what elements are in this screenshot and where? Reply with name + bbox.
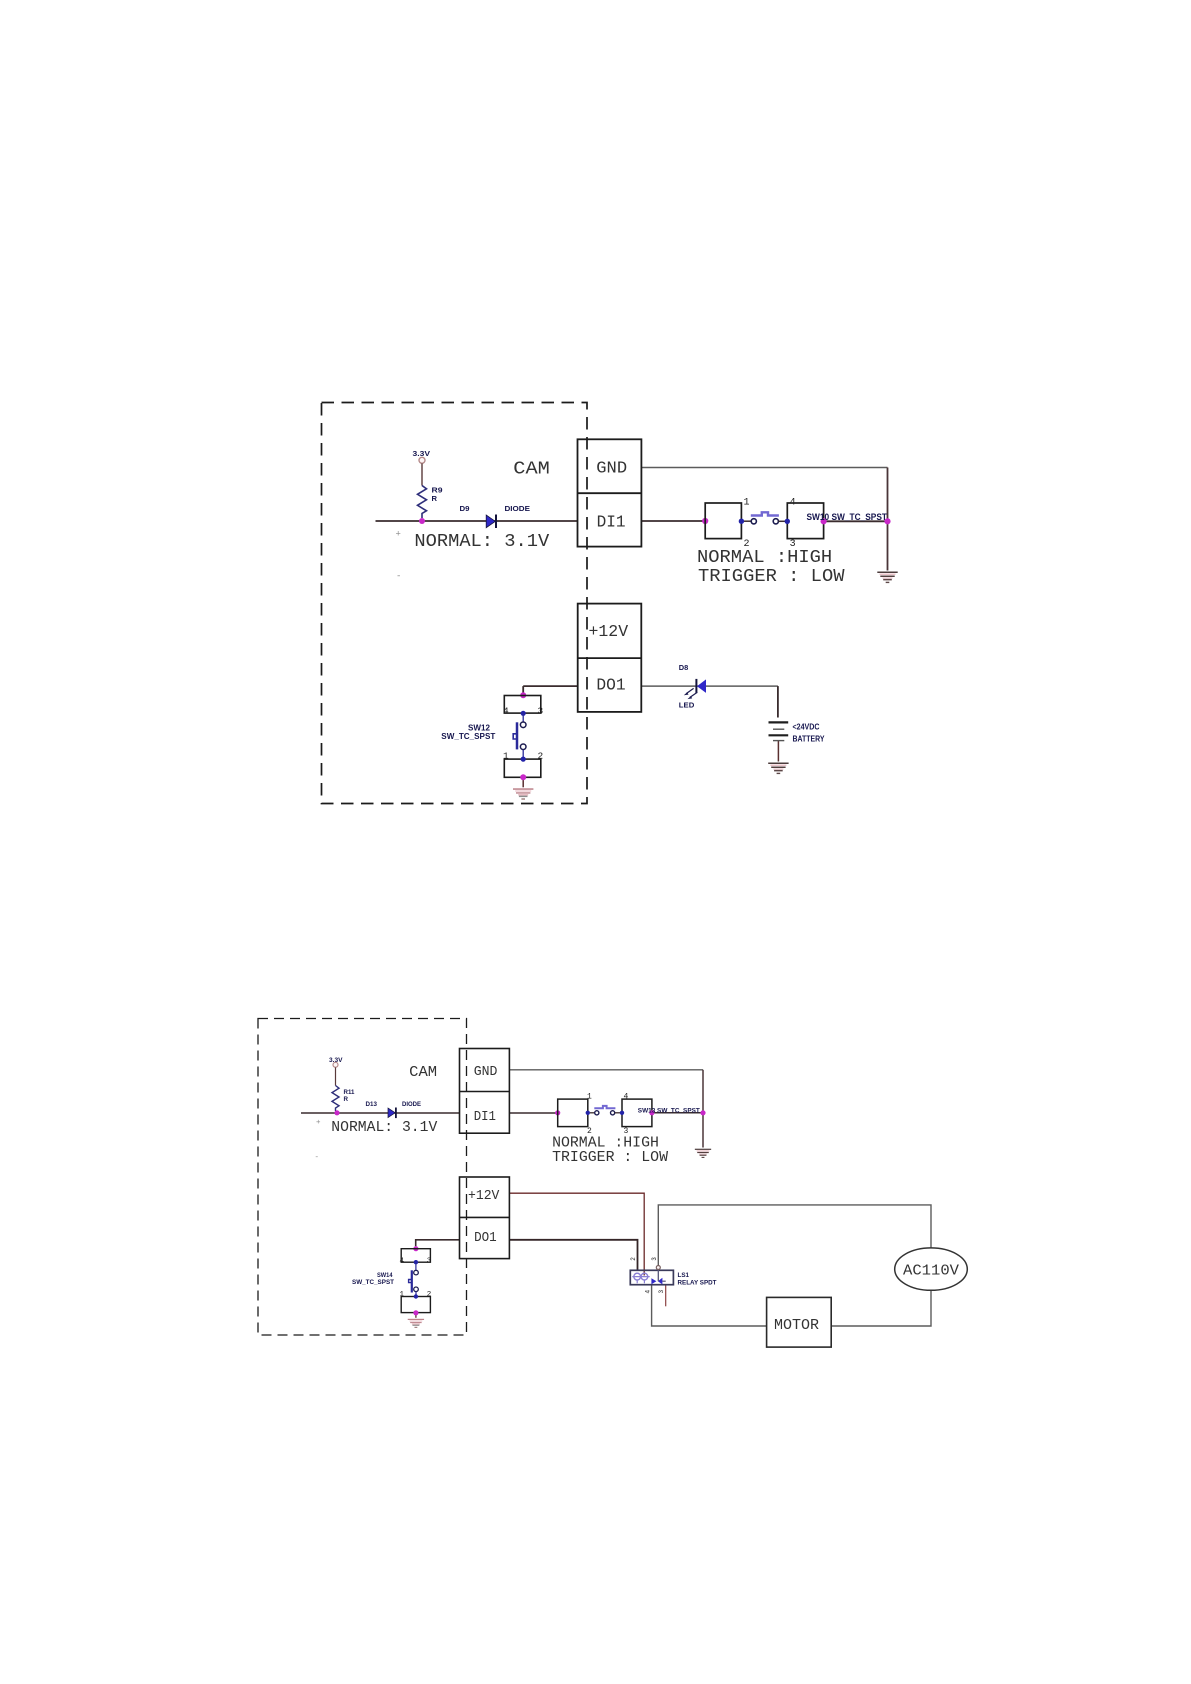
svg-text:+12V: +12V <box>468 1189 500 1204</box>
svg-text:SW10 SW_TC_SPST: SW10 SW_TC_SPST <box>807 512 888 522</box>
svg-text:4: 4 <box>624 1093 629 1102</box>
svg-text:-: - <box>315 1154 320 1162</box>
svg-text:4: 4 <box>400 1257 405 1265</box>
svg-text:2: 2 <box>538 750 544 761</box>
svg-text:TRIGGER : LOW: TRIGGER : LOW <box>552 1150 668 1166</box>
svg-text:3.3V: 3.3V <box>413 449 431 458</box>
svg-text:1: 1 <box>400 1291 405 1299</box>
svg-text:2: 2 <box>630 1257 637 1261</box>
svg-text:GND: GND <box>596 459 627 478</box>
svg-text:1: 1 <box>503 750 509 761</box>
svg-text:DI1: DI1 <box>474 1110 496 1125</box>
svg-text:CAM: CAM <box>513 459 550 480</box>
svg-text:DO1: DO1 <box>474 1231 497 1246</box>
svg-text:D9: D9 <box>460 504 470 513</box>
svg-text:3: 3 <box>427 1257 432 1265</box>
svg-text:BATTERY: BATTERY <box>793 735 825 744</box>
svg-text:3: 3 <box>538 705 544 716</box>
svg-text:+: + <box>396 530 401 540</box>
svg-text:DIODE: DIODE <box>505 504 531 513</box>
svg-text:MOTOR: MOTOR <box>774 1317 819 1334</box>
svg-text:4: 4 <box>645 1290 652 1294</box>
svg-text:DO1: DO1 <box>596 677 625 696</box>
svg-text:GND: GND <box>474 1065 498 1080</box>
svg-text:D13: D13 <box>366 1101 378 1108</box>
svg-text:R: R <box>344 1096 349 1103</box>
svg-text:4: 4 <box>503 705 509 716</box>
svg-text:3: 3 <box>651 1257 658 1261</box>
svg-text:+: + <box>316 1119 321 1127</box>
svg-text:+12V: +12V <box>589 623 629 642</box>
svg-text:R11: R11 <box>344 1089 356 1096</box>
svg-text:1: 1 <box>587 1093 592 1102</box>
svg-text:SW14: SW14 <box>377 1272 393 1279</box>
svg-text:LED: LED <box>679 701 695 710</box>
svg-text:RELAY SPDT: RELAY SPDT <box>678 1280 718 1287</box>
svg-text:3: 3 <box>658 1290 665 1294</box>
svg-text:R: R <box>432 494 438 503</box>
svg-text:<24VDC: <24VDC <box>793 723 820 732</box>
svg-text:DIODE: DIODE <box>402 1101 421 1108</box>
svg-text:SW12: SW12 <box>468 723 491 732</box>
svg-text:CAM: CAM <box>409 1064 437 1081</box>
svg-text:SW13 SW_TC_SPST: SW13 SW_TC_SPST <box>638 1107 701 1114</box>
svg-text:AC110V: AC110V <box>903 1263 959 1280</box>
svg-text:SW_TC_SPST: SW_TC_SPST <box>352 1279 395 1286</box>
svg-text:2: 2 <box>427 1291 432 1299</box>
svg-text:1: 1 <box>744 498 750 509</box>
svg-text:TRIGGER : LOW: TRIGGER : LOW <box>698 566 845 587</box>
svg-text:SW_TC_SPST: SW_TC_SPST <box>441 732 495 741</box>
svg-text:-: - <box>396 572 401 582</box>
svg-text:NORMAL: 3.1V: NORMAL: 3.1V <box>331 1120 437 1136</box>
svg-text:NORMAL: 3.1V: NORMAL: 3.1V <box>414 531 549 552</box>
svg-text:DI1: DI1 <box>597 514 626 533</box>
svg-text:D8: D8 <box>679 663 689 672</box>
svg-text:4: 4 <box>790 498 796 509</box>
svg-text:LS1: LS1 <box>678 1272 690 1279</box>
svg-text:NORMAL :HIGH: NORMAL :HIGH <box>697 547 832 568</box>
